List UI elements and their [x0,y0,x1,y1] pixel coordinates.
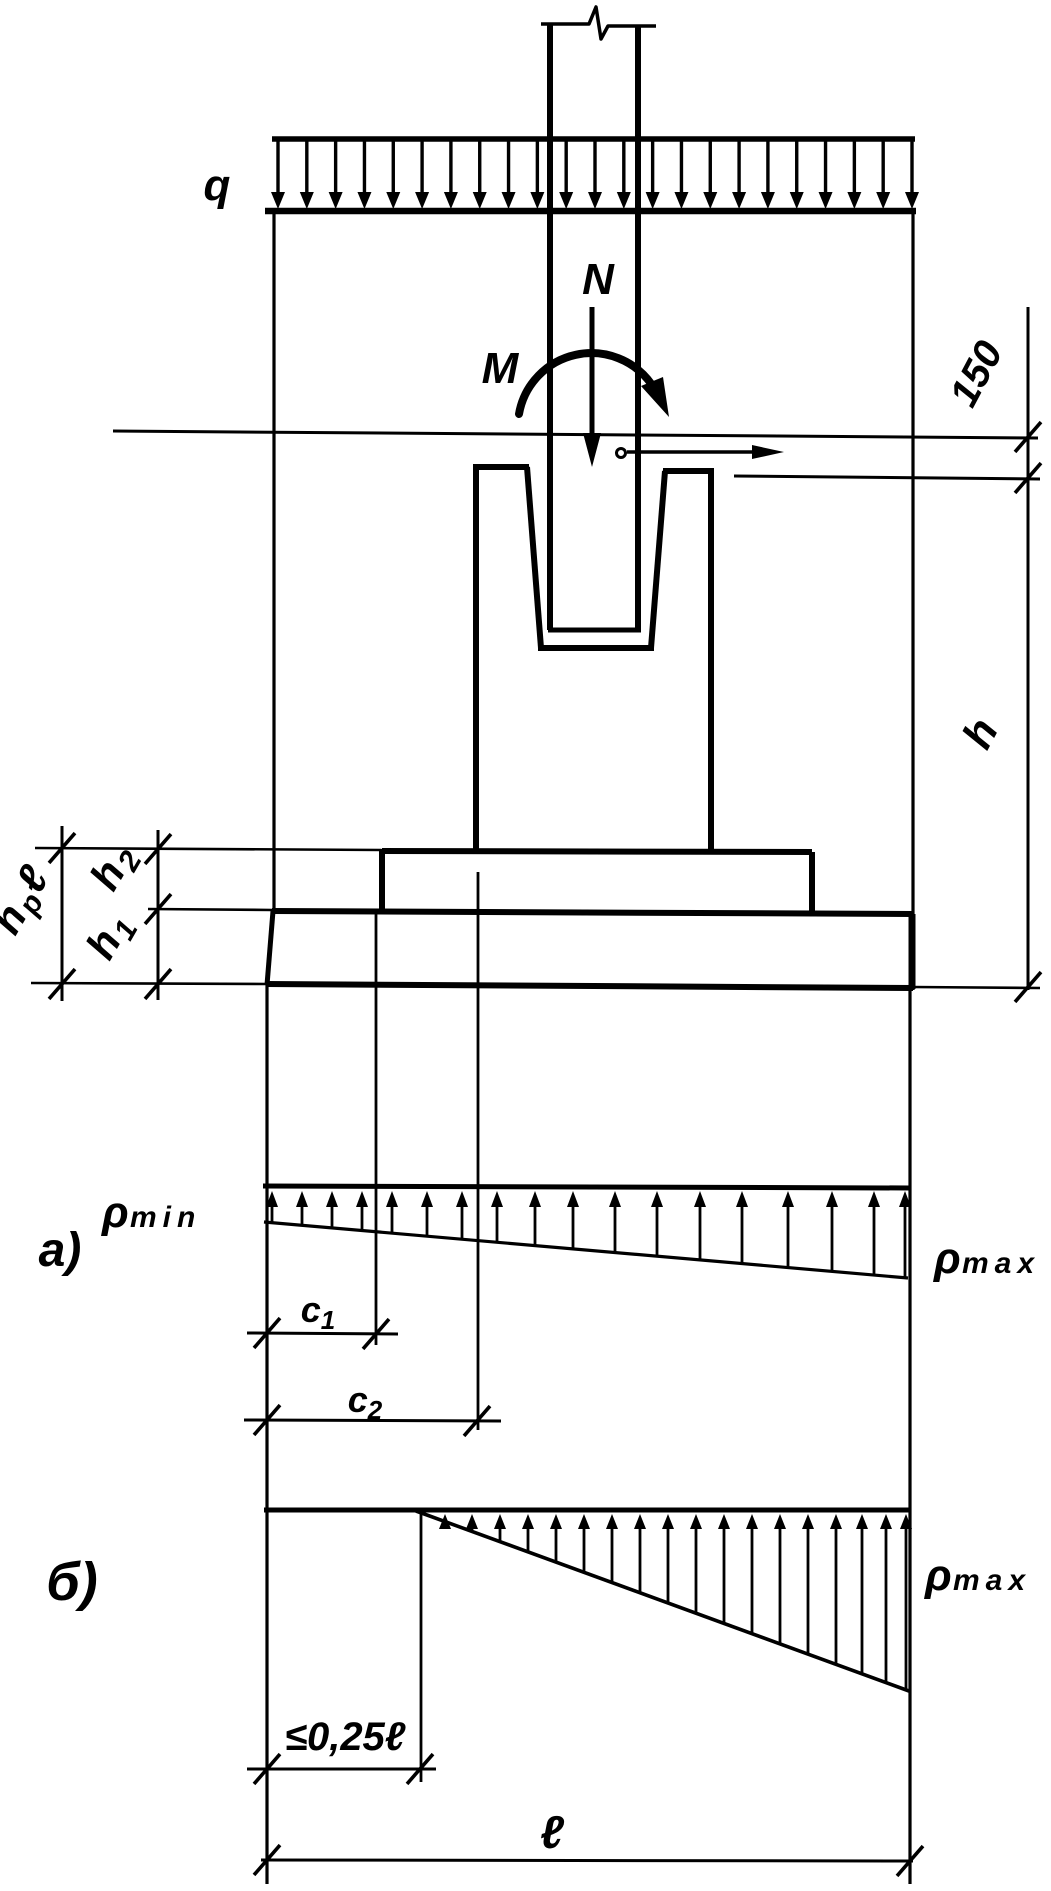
svg-text:а): а) [39,1224,82,1277]
svg-text:ρ: ρ [923,1551,952,1600]
svg-text:M: M [482,344,520,393]
svg-text:б): б) [46,1552,97,1612]
svg-text:ρ: ρ [100,1188,129,1237]
svg-text:max: max [953,1564,1031,1597]
svg-text:ℓ: ℓ [540,1806,564,1858]
svg-text:q: q [204,161,231,210]
svg-text:min: min [130,1201,201,1234]
svg-text:≤0,25ℓ: ≤0,25ℓ [285,1715,406,1759]
svg-text:max: max [962,1247,1040,1280]
svg-text:ρ: ρ [932,1234,961,1283]
svg-text:N: N [582,255,615,304]
